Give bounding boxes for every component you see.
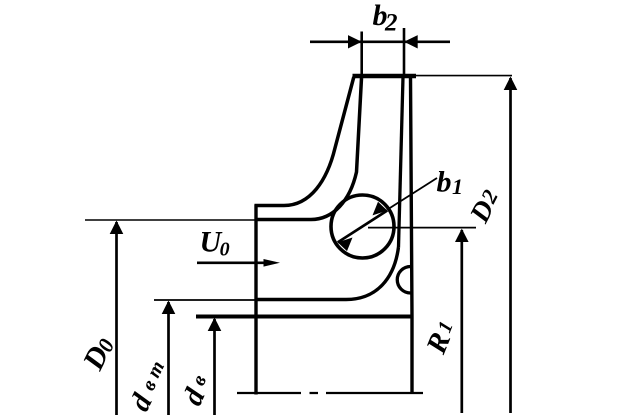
wire U0 flow arrow line — [197, 261, 266, 264]
arrowhead D0 top — [110, 221, 124, 235]
wire d_vt arrow line — [167, 302, 170, 415]
arrowhead D2 top — [504, 77, 518, 91]
svg-text:D0: D0 — [76, 332, 120, 376]
wire back disk rear line — [411, 77, 413, 394]
svg-text:b2: b2 — [373, 0, 398, 37]
wire b2 left extension line — [360, 32, 363, 77]
arrowhead b1 chord lower-left — [338, 238, 353, 252]
wire back disk front line — [399, 77, 404, 247]
arrowhead b2 right — [404, 35, 418, 48]
svg-text:b1: b1 — [437, 166, 464, 200]
wire hub top face — [256, 298, 346, 302]
svg-text:dв: dв — [177, 370, 218, 410]
wire shaft face line — [196, 315, 412, 319]
arrowhead d_v top — [208, 318, 222, 332]
wire d_v arrow line — [213, 319, 216, 415]
arrowhead R1 top — [455, 229, 469, 242]
wire R1 dimension line — [368, 227, 476, 229]
wire inner shroud contour — [255, 78, 362, 220]
wire rim top edge — [353, 74, 417, 79]
arrowhead b2 left — [348, 35, 362, 48]
arrowhead d_vt top — [162, 301, 176, 315]
arrowhead U0 right — [264, 259, 281, 267]
wire shaft boss bump — [397, 267, 410, 294]
wire D2 arrow line — [509, 78, 512, 413]
arrowhead b1 chord upper-right — [373, 202, 388, 216]
svg-text:R1: R1 — [420, 316, 462, 359]
svg-text:D2: D2 — [464, 185, 507, 229]
wire D0 dimension line — [85, 219, 258, 221]
wire b2 dimension line — [310, 40, 450, 43]
circle b1 inscribed circle — [331, 195, 394, 258]
wire centerline dash-dot — [237, 392, 423, 394]
wire hub fillet curve — [346, 247, 399, 300]
wire R1 arrow line — [460, 230, 463, 413]
wire b1 diameter chord — [338, 211, 388, 243]
wire b1 leader line — [388, 178, 438, 210]
wire left wall of impeller inlet — [254, 205, 257, 395]
wire D0 arrow line — [115, 222, 118, 415]
svg-text:U0: U0 — [200, 226, 230, 261]
wire b2 right extension line — [403, 28, 406, 76]
wire D2 dimension line — [416, 75, 512, 77]
wire outer shroud contour — [255, 77, 354, 206]
wire d_vt extension line — [154, 299, 256, 301]
